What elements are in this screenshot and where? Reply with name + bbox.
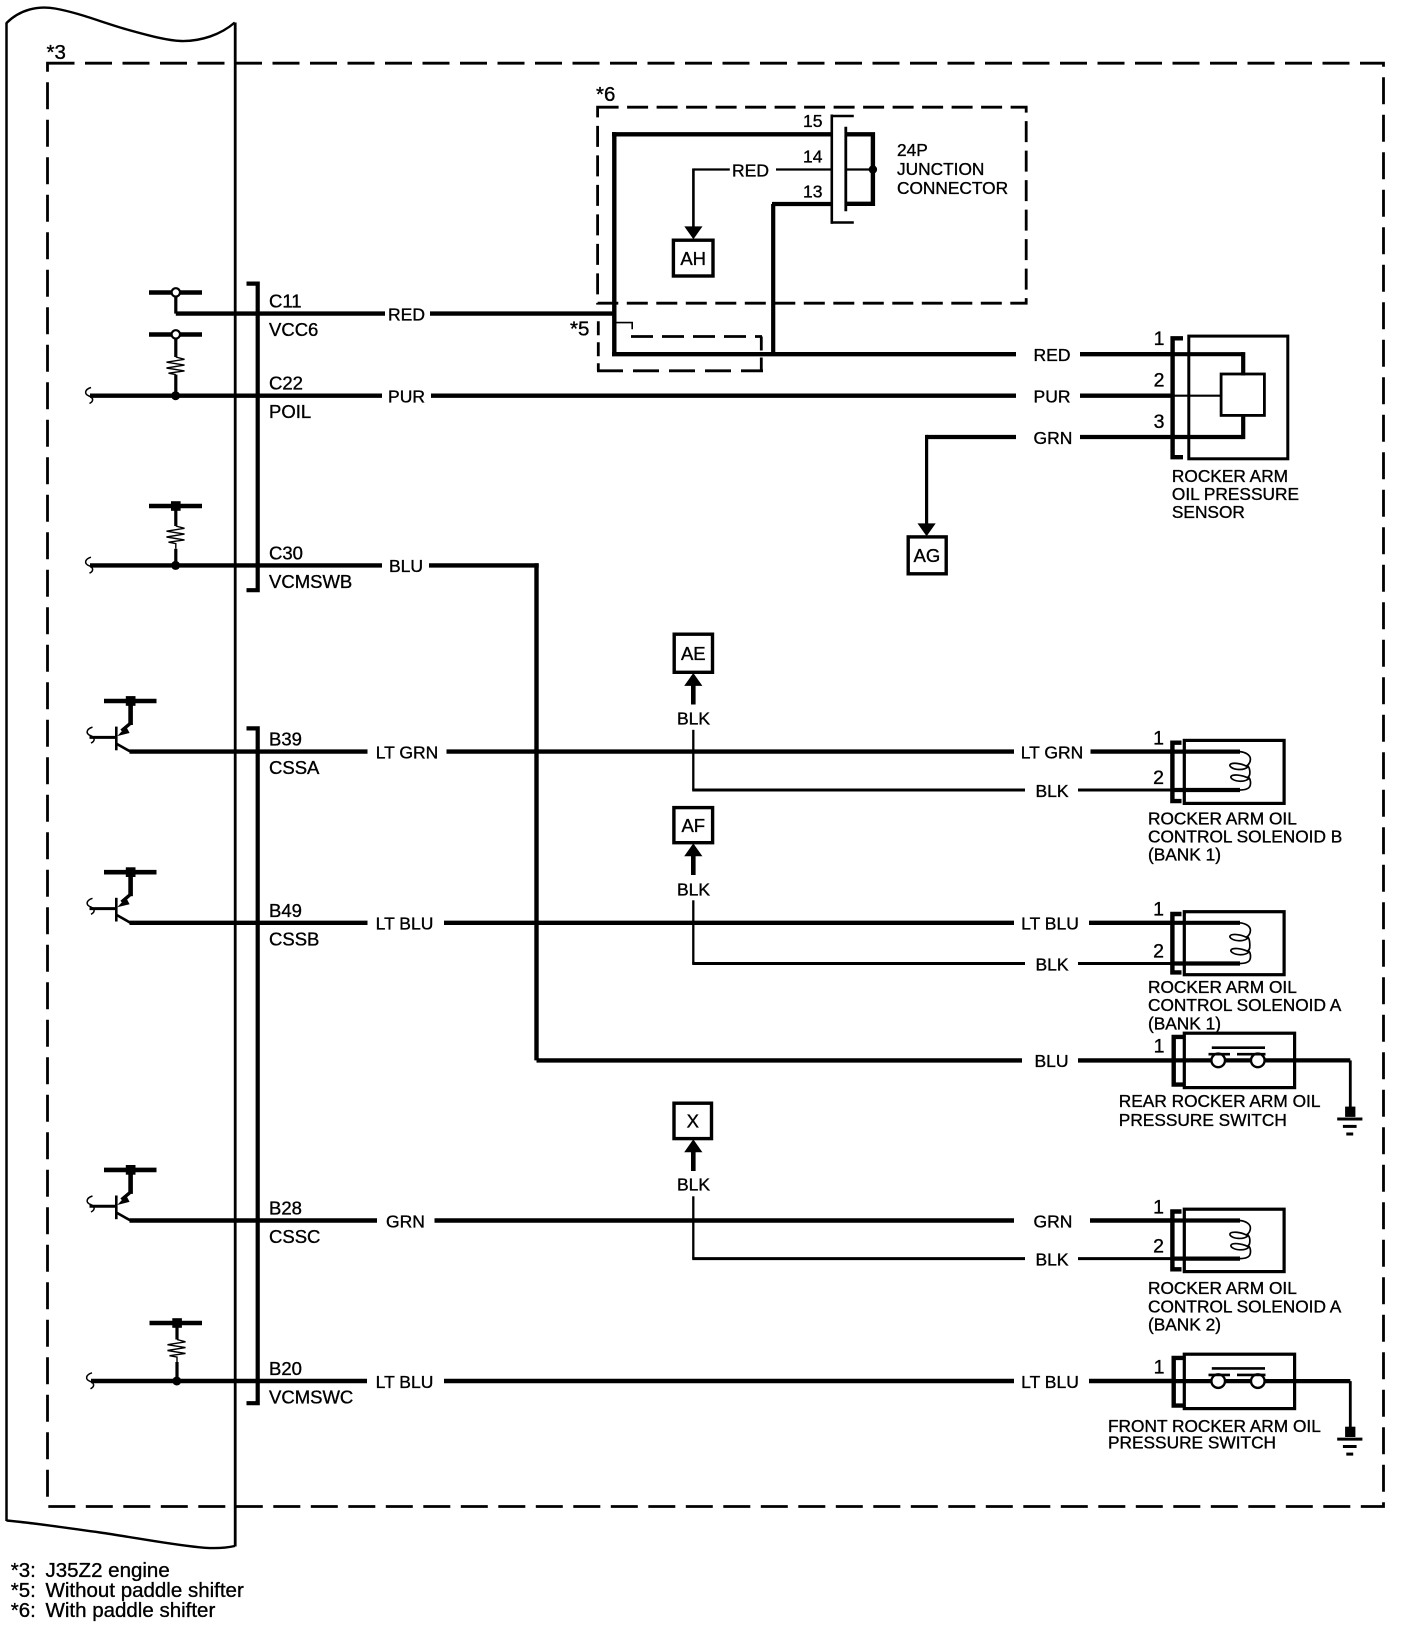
wire GRN from sensor pin 3 xyxy=(927,435,1016,439)
transistor driver symbol (B39 CSSA) xyxy=(87,696,156,752)
svg-text:BLU: BLU xyxy=(1034,1051,1068,1071)
svg-text:*5: *5 xyxy=(570,318,589,341)
wire LT GRN to solenoid B bracket xyxy=(1091,749,1172,753)
pin 1 wire into ROCKER ARM OIL CONTROL SOLENOID B (BANK 1) xyxy=(1171,749,1240,753)
svg-text:15: 15 xyxy=(803,111,822,131)
svg-text:C11: C11 xyxy=(269,291,302,312)
svg-text:B39: B39 xyxy=(269,729,302,750)
svg-text:PUR: PUR xyxy=(1034,387,1071,407)
svg-text:(BANK 1): (BANK 1) xyxy=(1148,845,1221,865)
svg-text:AG: AG xyxy=(914,545,941,566)
svg-text:2: 2 xyxy=(1153,767,1164,789)
pin 2 wire into ROCKER ARM OIL CONTROL SOLENOID A (BANK 1) xyxy=(1171,961,1240,965)
dashed box *6 (with paddle shifter) xyxy=(598,107,1027,303)
svg-text:13: 13 xyxy=(803,181,822,201)
pin 1 wire through FRONT ROCKER ARM OIL PRESSURE SWITCH xyxy=(1172,1379,1350,1383)
device box rocker arm oil pressure sensor xyxy=(1189,336,1288,459)
wire BLK to solenoid B bracket xyxy=(1078,789,1171,792)
wire C11 RED segment right to riser xyxy=(430,311,617,315)
svg-text:1: 1 xyxy=(1153,727,1164,749)
junction bus dot xyxy=(869,165,877,173)
svg-text:B20: B20 xyxy=(269,1358,302,1379)
svg-text:X: X xyxy=(687,1111,699,1132)
svg-text:BLK: BLK xyxy=(677,879,710,899)
device name FRONT ROCKER ARM OIL PRESSURE SWITCH xyxy=(1108,1416,1321,1453)
wire B28 inside ECM xyxy=(130,1218,235,1222)
switch contact plate bars (REAR ROCKER ARM OIL PRESSURE SWITCH) xyxy=(1212,1046,1265,1049)
wire C11 RED segment left xyxy=(235,311,386,315)
arrow up into X xyxy=(684,1139,702,1152)
other-circuit tap symbol (C30 VCMSWB) xyxy=(149,504,202,508)
svg-text:LT BLU: LT BLU xyxy=(1021,914,1079,934)
svg-text:AH: AH xyxy=(680,248,706,269)
wire junction pin 14 left segment xyxy=(694,168,730,170)
wire BLU vertical riser down xyxy=(534,563,538,1060)
svg-text:OIL PRESSURE: OIL PRESSURE xyxy=(1172,484,1299,504)
pull-up resistor symbol (C22 POIL) xyxy=(149,332,202,336)
wire LT BLU to solenoid A bank1 bracket xyxy=(1089,921,1171,925)
wire C30 BLU segment left xyxy=(235,563,383,567)
svg-text:CSSB: CSSB xyxy=(269,928,319,949)
wire LT BLU to front switch bracket xyxy=(1089,1379,1172,1383)
svg-text:(BANK 1): (BANK 1) xyxy=(1148,1013,1221,1033)
wire junction pin 13 riser to sensor RED xyxy=(771,204,775,356)
solenoid coil (ROCKER ARM OIL CONTROL SOLENOID B (BANK 1)) xyxy=(1230,752,1251,790)
wire BLK vertical (X) xyxy=(692,1196,694,1258)
pin 2 wire into sensor xyxy=(1171,395,1222,397)
svg-text:PUR: PUR xyxy=(388,387,425,407)
svg-text:CONTROL SOLENOID A: CONTROL SOLENOID A xyxy=(1148,1296,1342,1316)
corner bracket *5 xyxy=(617,323,633,330)
svg-text:2: 2 xyxy=(1154,369,1165,391)
junction internal bus loop xyxy=(847,134,873,204)
svg-text:BLK: BLK xyxy=(677,708,710,728)
pin 2 wire into ROCKER ARM OIL CONTROL SOLENOID B (BANK 1) xyxy=(1171,788,1240,792)
resistor zigzag (B20) xyxy=(168,1340,186,1363)
svg-text:SENSOR: SENSOR xyxy=(1172,502,1245,522)
svg-text:VCMSWB: VCMSWB xyxy=(269,571,352,592)
wire C30 BLU segment to corner xyxy=(429,563,539,567)
footnote *5 Without paddle shifter xyxy=(11,1579,244,1602)
svg-text:CSSC: CSSC xyxy=(269,1226,320,1247)
svg-text:GRN: GRN xyxy=(1034,1211,1073,1231)
svg-text:LT GRN: LT GRN xyxy=(1021,742,1084,762)
wire B49 LT BLU segment left xyxy=(235,921,368,925)
ground symbol (FRONT ROCKER ARM OIL PRESSURE SWITCH) xyxy=(1337,1427,1362,1454)
svg-text:AF: AF xyxy=(681,815,705,836)
solenoid coil (ROCKER ARM OIL CONTROL SOLENOID A (BANK 2)) xyxy=(1230,1221,1251,1259)
wire B49 inside ECM xyxy=(130,921,235,925)
svg-text:1: 1 xyxy=(1153,899,1164,921)
svg-text:CONTROL SOLENOID A: CONTROL SOLENOID A xyxy=(1148,995,1342,1015)
resistor zigzag (C22) xyxy=(167,357,185,375)
footnote *6 With paddle shifter xyxy=(11,1599,216,1622)
arrow down into AG xyxy=(918,523,936,536)
wire BLK horizontal (solenoid A bank1 ground return) xyxy=(692,962,1025,965)
svg-text:3: 3 xyxy=(1154,411,1165,433)
device box ROCKER ARM OIL CONTROL SOLENOID A (BANK 2) xyxy=(1184,1209,1284,1271)
svg-text:LT BLU: LT BLU xyxy=(376,914,434,934)
wire GRN to solenoid A bank2 bracket xyxy=(1090,1218,1171,1222)
device name ROCKER ARM OIL CONTROL SOLENOID B (BANK 1) xyxy=(1148,808,1342,864)
svg-text:*6: *6 xyxy=(596,83,615,106)
wire B39 inside ECM xyxy=(130,749,235,753)
wire GRN corner down to AG xyxy=(925,435,928,524)
arrow down into AH xyxy=(684,226,702,239)
wire B49 LT BLU long segment xyxy=(444,921,1014,925)
wire BLK vertical (AF) xyxy=(692,900,694,963)
24P junction connector symbol xyxy=(831,115,854,224)
svg-text:LT BLU: LT BLU xyxy=(1021,1372,1079,1392)
pin 3 wire into sensor xyxy=(1080,435,1243,439)
wire C22 PUR long segment xyxy=(431,394,1016,398)
wire break squiggle (C22) xyxy=(86,388,93,404)
device box REAR ROCKER ARM OIL PRESSURE SWITCH xyxy=(1184,1033,1294,1087)
wire junction pin 13 xyxy=(772,202,831,206)
svg-text:B49: B49 xyxy=(269,900,302,921)
svg-text:BLU: BLU xyxy=(389,556,423,576)
wire BLK to solenoid A bank2 bracket xyxy=(1078,1257,1171,1260)
wire BLK horizontal (solenoid A bank2 ground return) xyxy=(692,1257,1025,1260)
wire BLU horizontal to rear switch xyxy=(537,1058,1023,1062)
wire C30 inside ECM xyxy=(90,563,235,567)
wire PUR to sensor bracket xyxy=(1080,394,1171,398)
svg-text:GRN: GRN xyxy=(1034,428,1073,448)
junction dot (B20) xyxy=(172,1377,181,1386)
solenoid coil (ROCKER ARM OIL CONTROL SOLENOID A (BANK 1)) xyxy=(1230,923,1251,964)
wire junction pin 15 xyxy=(612,132,831,136)
resistor zigzag (C30) xyxy=(167,526,185,549)
arrow up into AE xyxy=(684,673,702,686)
wire B28 GRN segment left xyxy=(235,1218,378,1222)
pin 2 wire into ROCKER ARM OIL CONTROL SOLENOID A (BANK 2) xyxy=(1171,1256,1240,1260)
connector box AF xyxy=(674,808,713,843)
connector box AG xyxy=(908,537,946,574)
svg-text:GRN: GRN xyxy=(386,1211,425,1231)
svg-text:RED: RED xyxy=(388,304,425,324)
connector bracket (ROCKER ARM OIL CONTROL SOLENOID B (BANK 1)) xyxy=(1172,743,1181,801)
device name rocker arm oil pressure sensor xyxy=(1172,466,1299,522)
svg-text:CSSA: CSSA xyxy=(269,757,320,778)
ground wire drop (REAR ROCKER ARM OIL PRESSURE SWITCH) xyxy=(1349,1060,1352,1108)
ECM connector bracket (C11-C30 group) xyxy=(247,284,258,591)
wire break squiggle (C30) xyxy=(86,557,93,573)
svg-text:PRESSURE SWITCH: PRESSURE SWITCH xyxy=(1119,1110,1287,1130)
arrow up into AF xyxy=(684,843,702,856)
wire BLK vertical (AE) xyxy=(692,730,694,790)
svg-text:VCMSWC: VCMSWC xyxy=(269,1387,353,1408)
svg-text:VCC6: VCC6 xyxy=(269,319,318,340)
connector box AH xyxy=(673,240,713,276)
torn page edge top curve xyxy=(7,8,235,41)
connector box AE xyxy=(674,634,712,672)
ECM connector bracket (B39-B20 group) xyxy=(247,728,258,1403)
junction pin 14 stub xyxy=(847,168,871,170)
wire C22 inside ECM xyxy=(90,394,235,398)
torn page edge left line xyxy=(5,23,8,1522)
svg-text:2: 2 xyxy=(1153,941,1164,963)
footnote *3 J35Z2 engine xyxy=(11,1559,170,1582)
device name ROCKER ARM OIL CONTROL SOLENOID A (BANK 2) xyxy=(1148,1278,1342,1334)
wire BLK horizontal (solenoid B ground return) xyxy=(692,789,1025,792)
transistor driver symbol (B49 CSSB) xyxy=(87,867,156,923)
wire B39 LT GRN segment left xyxy=(235,749,368,753)
wire B20 inside ECM xyxy=(91,1379,235,1383)
torn page edge bottom curve xyxy=(7,1521,235,1549)
sensor element square xyxy=(1221,374,1264,415)
ground symbol (REAR ROCKER ARM OIL PRESSURE SWITCH) xyxy=(1337,1107,1362,1134)
svg-text:1: 1 xyxy=(1154,1356,1165,1378)
svg-text:BLK: BLK xyxy=(1035,781,1068,801)
svg-text:*6:: *6: xyxy=(11,1599,36,1622)
svg-text:1: 1 xyxy=(1154,1036,1165,1058)
svg-text:*3: *3 xyxy=(47,41,66,64)
switch contact plate bars (FRONT ROCKER ARM OIL PRESSURE SWITCH) xyxy=(1212,1367,1265,1370)
wire RED riser to junction pin 15 xyxy=(612,132,616,356)
svg-text:(BANK 2): (BANK 2) xyxy=(1148,1314,1221,1334)
connector bracket (REAR ROCKER ARM OIL PRESSURE SWITCH) xyxy=(1174,1037,1183,1085)
svg-text:1: 1 xyxy=(1153,1196,1164,1218)
wire C22 PUR segment left xyxy=(235,394,383,398)
svg-text:With paddle shifter: With paddle shifter xyxy=(46,1599,216,1622)
connector bracket (ROCKER ARM OIL CONTROL SOLENOID A (BANK 2)) xyxy=(1172,1212,1181,1270)
svg-text:POIL: POIL xyxy=(269,401,311,422)
svg-text:LT BLU: LT BLU xyxy=(376,1372,434,1392)
svg-text:BLK: BLK xyxy=(1035,954,1068,974)
svg-text:CONTROL SOLENOID B: CONTROL SOLENOID B xyxy=(1148,827,1342,847)
device box ROCKER ARM OIL CONTROL SOLENOID B (BANK 1) xyxy=(1184,740,1284,803)
svg-text:24P: 24P xyxy=(897,140,928,160)
wire junction pin 14 right segment xyxy=(776,168,831,170)
pin 1 wire into sensor xyxy=(1171,352,1243,356)
device name REAR ROCKER ARM OIL PRESSURE SWITCH xyxy=(1119,1091,1321,1130)
svg-text:C22: C22 xyxy=(269,373,303,394)
svg-text:C30: C30 xyxy=(269,542,303,563)
pin 1 wire through REAR ROCKER ARM OIL PRESSURE SWITCH xyxy=(1172,1058,1350,1062)
wire C11 to ECM edge xyxy=(176,311,235,315)
svg-text:RED: RED xyxy=(1034,345,1071,365)
svg-text:AE: AE xyxy=(681,643,706,664)
wire RED to sensor bracket xyxy=(1080,352,1171,356)
transistor driver symbol (B28 CSSC) xyxy=(87,1165,156,1221)
junction dot (C30) xyxy=(171,561,180,570)
connector box X xyxy=(674,1103,712,1138)
ECM boundary vertical line xyxy=(234,23,237,1547)
other-circuit tap symbol (C11 VCC6) xyxy=(149,290,202,294)
svg-text:2: 2 xyxy=(1153,1236,1164,1258)
svg-text:1: 1 xyxy=(1154,328,1165,350)
connector bracket (FRONT ROCKER ARM OIL PRESSURE SWITCH) xyxy=(1174,1358,1183,1406)
device box ROCKER ARM OIL CONTROL SOLENOID A (BANK 1) xyxy=(1184,912,1284,975)
ground wire drop (FRONT ROCKER ARM OIL PRESSURE SWITCH) xyxy=(1349,1381,1352,1429)
svg-text:CONNECTOR: CONNECTOR xyxy=(897,178,1008,198)
pull-up resistor symbol (B20 VCMSWC) xyxy=(150,1321,203,1325)
wire B20 LT BLU long segment xyxy=(444,1379,1014,1383)
wire pin14 corner down to AH xyxy=(692,168,695,227)
svg-text:REAR ROCKER ARM OIL: REAR ROCKER ARM OIL xyxy=(1119,1091,1321,1111)
wire BLU to rear switch bracket xyxy=(1078,1058,1172,1062)
connector bracket (rocker arm oil pressure sensor) xyxy=(1173,338,1183,457)
svg-text:ROCKER ARM OIL: ROCKER ARM OIL xyxy=(1148,808,1297,828)
pin 1 wire into ROCKER ARM OIL CONTROL SOLENOID A (BANK 2) xyxy=(1171,1218,1240,1222)
pin 1 wire into ROCKER ARM OIL CONTROL SOLENOID A (BANK 1) xyxy=(1171,921,1240,925)
svg-text:RED: RED xyxy=(732,160,769,180)
wire RED output segment xyxy=(612,352,1016,356)
wire B20 LT BLU segment left xyxy=(235,1379,368,1383)
svg-text:ROCKER ARM OIL: ROCKER ARM OIL xyxy=(1148,1278,1297,1298)
wire BLK to solenoid A bank1 bracket xyxy=(1078,962,1171,965)
switch contact circles (REAR ROCKER ARM OIL PRESSURE SWITCH) xyxy=(1211,1054,1225,1068)
device name ROCKER ARM OIL CONTROL SOLENOID A (BANK 1) xyxy=(1148,977,1342,1033)
device name 24P JUNCTION CONNECTOR xyxy=(897,140,1008,198)
svg-text:B28: B28 xyxy=(269,1198,302,1219)
dashed box *5 (without paddle shifter) xyxy=(597,321,763,371)
wire break squiggle (B20) xyxy=(87,1373,94,1389)
svg-text:BLK: BLK xyxy=(677,1175,710,1195)
connector bracket (ROCKER ARM OIL CONTROL SOLENOID A (BANK 1)) xyxy=(1172,914,1181,972)
svg-text:LT GRN: LT GRN xyxy=(376,742,439,762)
svg-text:14: 14 xyxy=(803,147,823,167)
wire B39 LT GRN long segment xyxy=(447,749,1015,753)
svg-text:JUNCTION: JUNCTION xyxy=(897,159,984,179)
svg-text:ROCKER ARM OIL: ROCKER ARM OIL xyxy=(1148,977,1297,997)
svg-text:PRESSURE SWITCH: PRESSURE SWITCH xyxy=(1108,1433,1276,1453)
switch contact circles (FRONT ROCKER ARM OIL PRESSURE SWITCH) xyxy=(1211,1374,1225,1388)
device box FRONT ROCKER ARM OIL PRESSURE SWITCH xyxy=(1184,1354,1294,1408)
junction dot (C22) xyxy=(171,391,180,400)
wire B28 GRN long segment xyxy=(435,1218,1015,1222)
svg-text:BLK: BLK xyxy=(1035,1249,1068,1269)
